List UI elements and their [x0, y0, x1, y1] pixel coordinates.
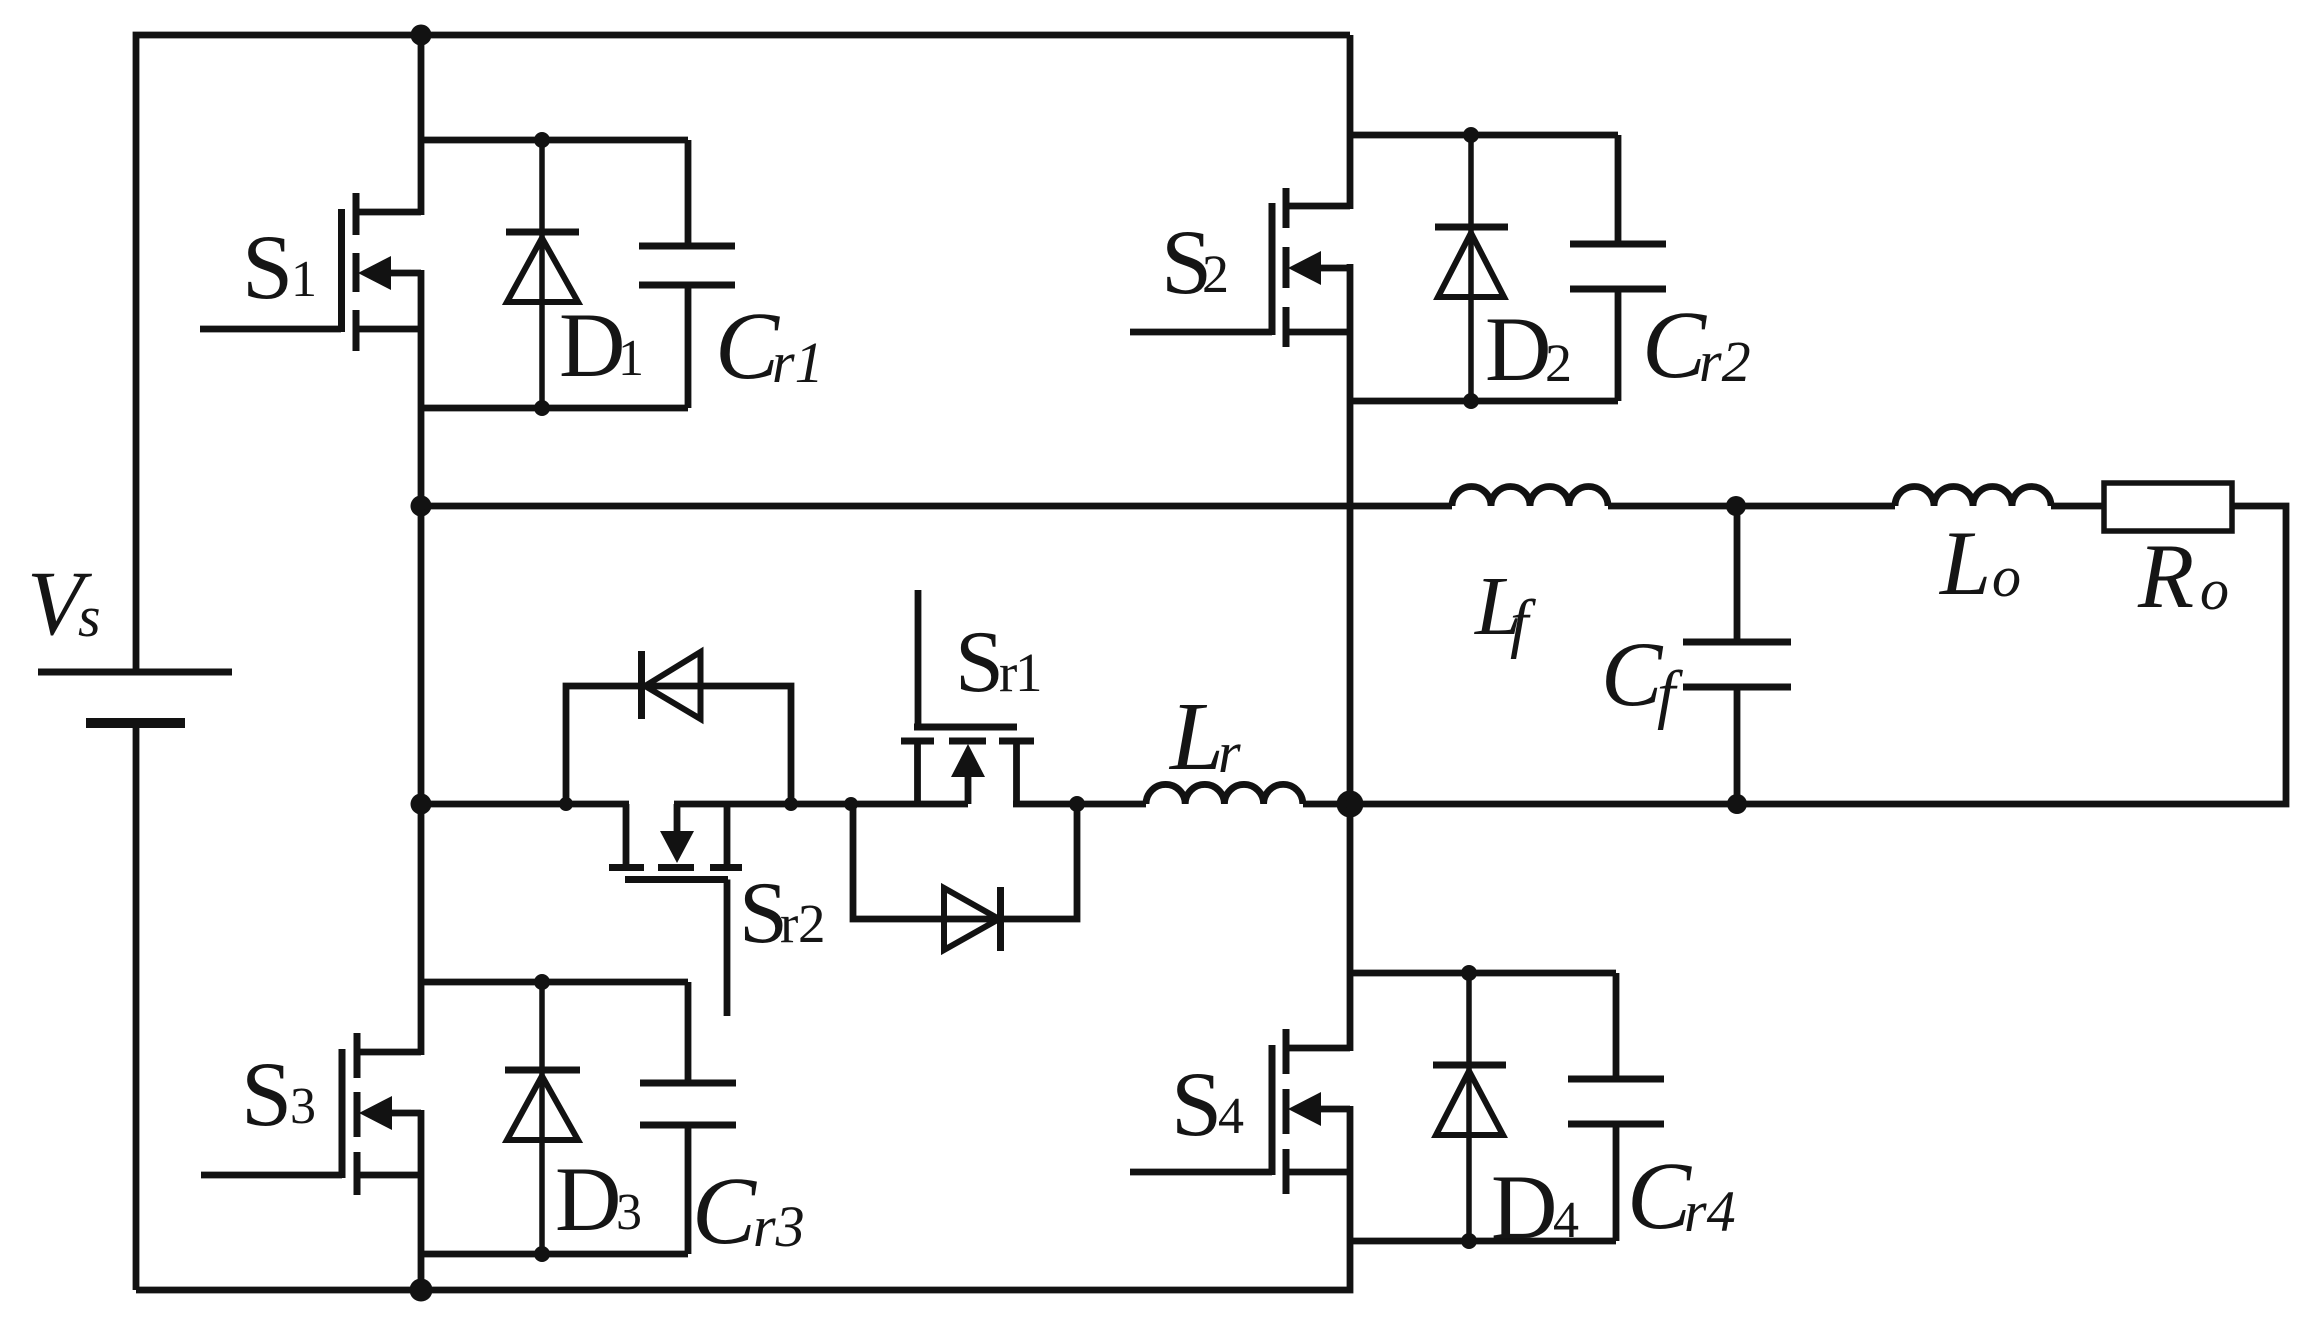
capacitor Cr4: [1568, 973, 1664, 1241]
diode Sr2 antiparallel loop: [566, 651, 791, 804]
wire S1 source leg to mid node: [418, 270, 425, 509]
wire S4 drain leg from right junction: [1347, 804, 1354, 1051]
wire D2 Cr2 bottom rail: [1350, 398, 1618, 405]
node D3 top: [534, 974, 550, 990]
wire left rail lower: [133, 723, 140, 1290]
wire S2 source leg down to right junction: [1347, 264, 1354, 804]
svg-text:3: 3: [616, 1184, 642, 1241]
diode D2: [1435, 135, 1508, 401]
wire D1 Cr1 top rail: [421, 137, 688, 144]
svg-text:1: 1: [1015, 642, 1043, 703]
inductor Lo: [1895, 487, 2051, 506]
svg-text:D: D: [555, 1148, 621, 1250]
svg-text:2: 2: [798, 893, 826, 954]
transistor S4: [1130, 1029, 1350, 1194]
svg-text:C: C: [692, 1157, 757, 1264]
svg-text:2: 2: [1545, 333, 1572, 393]
node top junction: [411, 25, 432, 46]
diode D4: [1433, 973, 1506, 1241]
capacitor Cr2: [1570, 135, 1666, 401]
diode D3: [505, 982, 580, 1254]
svg-text:r4: r4: [1684, 1179, 1736, 1244]
svg-text:S: S: [241, 1043, 292, 1145]
inductor Lf: [1452, 487, 1608, 506]
node D4 top: [1461, 965, 1477, 981]
svg-text:C: C: [715, 292, 780, 399]
svg-text:1: 1: [291, 251, 317, 308]
wire Lr to phase-leg junction: [1303, 801, 1350, 808]
node D3 bottom: [534, 1246, 550, 1262]
svg-text:3: 3: [290, 1078, 316, 1135]
wire D3 Cr3 top rail: [421, 979, 688, 986]
wire mid-left vertical S1 to S3: [418, 506, 425, 1055]
svg-text:R: R: [2137, 525, 2194, 627]
wire S1 drain leg: [418, 35, 425, 215]
node phase-leg right junction: [1337, 791, 1364, 818]
wire D4 Cr4 top rail: [1350, 970, 1616, 977]
svg-text:C: C: [1627, 1142, 1692, 1249]
wire Sr2 to Sr1 segment: [674, 801, 968, 808]
node Cf top junction: [1726, 496, 1746, 516]
capacitor Cr3: [640, 982, 736, 1254]
svg-text:L: L: [1938, 512, 1991, 614]
node Sr1 diode left junction: [844, 797, 858, 811]
wire D4 Cr4 bottom rail: [1350, 1238, 1616, 1245]
diode D1: [506, 140, 579, 408]
transistor S1: [200, 193, 421, 351]
svg-text:2: 2: [1202, 244, 1229, 304]
svg-text:D: D: [559, 294, 625, 396]
transistor S3: [201, 1033, 421, 1195]
svg-text:o: o: [1992, 544, 2021, 609]
svg-text:r: r: [1218, 720, 1241, 785]
wire mid-left node to Sr2 drain: [421, 801, 629, 808]
wire S3 source leg: [418, 1110, 425, 1290]
svg-text:1: 1: [618, 330, 644, 387]
svg-text:r: r: [780, 893, 798, 954]
node mid-left lower junction: [411, 794, 432, 815]
wire Ro to right edge and down: [1350, 506, 2286, 804]
svg-text:4: 4: [1218, 1088, 1244, 1145]
wire bottom rail: [136, 1106, 1350, 1290]
wire D1 Cr1 bottom rail: [421, 405, 688, 412]
node D2 bottom: [1463, 393, 1479, 409]
svg-text:C: C: [1601, 623, 1664, 725]
capacitor Cf: [1683, 506, 1791, 804]
node D1 bottom: [534, 400, 550, 416]
node D2 top: [1463, 127, 1479, 143]
wire top rail and left rail upper: [136, 35, 1350, 672]
svg-text:C: C: [1642, 291, 1707, 398]
wire Lf to Lo: [1608, 503, 1895, 510]
wire Lo to Ro: [2051, 503, 2104, 510]
svg-text:L: L: [1168, 683, 1224, 790]
svg-text:r3: r3: [753, 1194, 805, 1259]
node Sr1 diode right junction: [1069, 796, 1085, 812]
node D4 bottom: [1461, 1233, 1477, 1249]
node Sr2 diode left junction: [559, 797, 573, 811]
wire S2 drain leg: [1347, 35, 1354, 209]
wire mid horizontal to Lf: [421, 503, 1452, 510]
wire D2 Cr2 top rail: [1350, 132, 1618, 139]
svg-text:D: D: [1485, 298, 1551, 400]
svg-text:S: S: [955, 614, 1004, 711]
svg-text:D: D: [1491, 1156, 1557, 1258]
node D1 top: [534, 132, 550, 148]
svg-text:r2: r2: [1699, 329, 1751, 394]
node mid-left junction: [411, 496, 432, 517]
transistor Sr1: [901, 590, 1034, 807]
diode Sr1 antiparallel loop: [853, 804, 1077, 951]
svg-text:o: o: [2200, 557, 2229, 622]
node bottom junction: [410, 1279, 433, 1302]
wire Lr to Sr1 source: [1013, 801, 1146, 808]
node Cf bottom junction: [1727, 794, 1747, 814]
transistor Sr2: [609, 804, 742, 1016]
svg-text:s: s: [78, 584, 101, 649]
svg-text:S: S: [242, 216, 293, 318]
capacitor Cr1: [639, 140, 735, 408]
battery Vs: [38, 672, 232, 723]
svg-text:S: S: [1171, 1053, 1222, 1155]
svg-text:4: 4: [1553, 1192, 1579, 1249]
wire D3 Cr3 bottom rail: [421, 1251, 688, 1258]
svg-text:r1: r1: [772, 330, 824, 395]
inductor Lr: [1146, 784, 1303, 804]
node Sr2 diode right junction: [784, 797, 798, 811]
resistor Ro: [2104, 483, 2232, 531]
transistor S2: [1130, 188, 1350, 347]
